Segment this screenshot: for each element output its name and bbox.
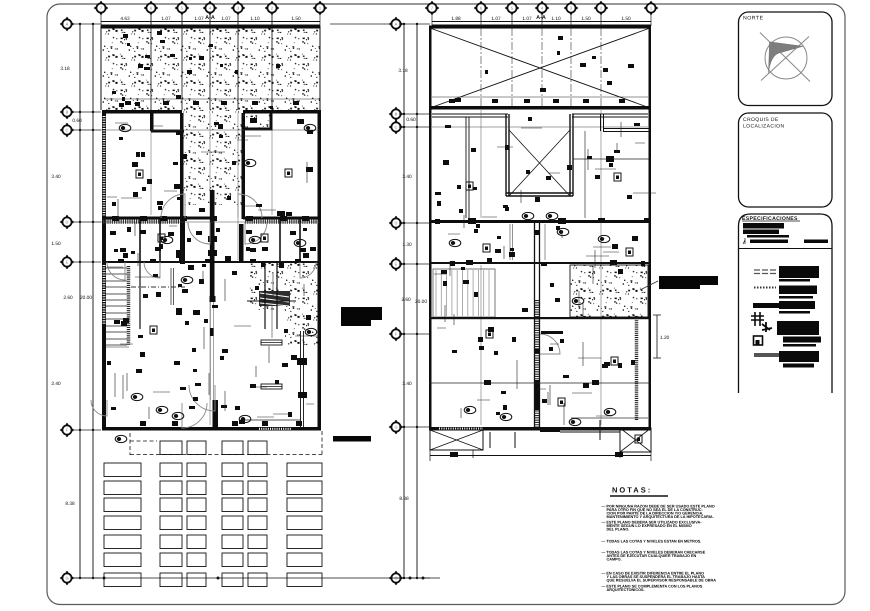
svg-text:0.60: 0.60 bbox=[406, 117, 416, 123]
right plan: planta alta / cimentacion bbox=[330, 1, 718, 585]
svg-text:2.60: 2.60 bbox=[63, 295, 73, 301]
svg-text:8.38: 8.38 bbox=[65, 501, 75, 507]
svg-text:— TODAS LAS COTAS Y NIVELES E: — TODAS LAS COTAS Y NIVELES ESTAN EN MET… bbox=[602, 540, 702, 544]
small square symbol bbox=[754, 336, 763, 345]
wall chunks on partitions bbox=[112, 216, 119, 221]
specifications content rows bbox=[754, 270, 776, 274]
svg-text:1.07: 1.07 bbox=[522, 16, 532, 22]
wall y262 bbox=[429, 262, 651, 264]
stipple lower-right patch bbox=[248, 262, 320, 310]
black label blob beside right plan bbox=[659, 276, 718, 285]
svg-text:0.60: 0.60 bbox=[72, 118, 82, 124]
svg-text:G: G bbox=[65, 576, 68, 581]
svg-text:20.00: 20.00 bbox=[415, 299, 427, 305]
right-side interior wall x301 bbox=[301, 331, 304, 428]
top-right room closet niche bbox=[243, 113, 271, 129]
svg-text:1.50: 1.50 bbox=[621, 16, 631, 22]
svg-text:1.07: 1.07 bbox=[491, 16, 501, 22]
svg-text:1.07: 1.07 bbox=[161, 16, 171, 22]
fixtures right plan bbox=[522, 212, 534, 219]
left plan left dimension lines bbox=[80, 24, 93, 578]
crosshatch blob (shower) bbox=[259, 291, 290, 306]
svg-text:1.10: 1.10 bbox=[250, 16, 260, 22]
norte box bbox=[739, 12, 833, 106]
svg-text:1.88: 1.88 bbox=[451, 16, 461, 22]
right plan crossed void (double height) bbox=[429, 26, 651, 29]
svg-text:G: G bbox=[394, 425, 397, 430]
svg-text:C: C bbox=[66, 128, 69, 133]
central spine wall bbox=[210, 190, 215, 300]
svg-text:A: A bbox=[66, 22, 69, 27]
door arc at central wall bbox=[540, 334, 560, 354]
svg-text:D: D bbox=[66, 220, 69, 225]
bottom crossed footing boxes bbox=[430, 430, 483, 450]
stipple patch right plan bbox=[570, 265, 648, 317]
partition walls upper rooms bbox=[180, 113, 184, 219]
svg-text:D: D bbox=[395, 221, 398, 226]
svg-text:B: B bbox=[395, 112, 398, 117]
svg-text:B: B bbox=[66, 110, 69, 115]
stair treads right plan bbox=[436, 270, 489, 316]
top-left niche walls bbox=[150, 113, 154, 131]
mid wall y221 bbox=[429, 220, 651, 223]
small partitions lower band bbox=[140, 219, 300, 262]
central double wall upper bbox=[535, 222, 540, 427]
right side small dimension 1.20 bbox=[656, 315, 658, 358]
stairwell cross bbox=[509, 130, 570, 196]
svg-text:DEL PLANO.: DEL PLANO. bbox=[607, 528, 630, 532]
fixtures (WC / lavatory symbols) left plan bbox=[119, 124, 131, 131]
svg-text:QUE RESUELVA EL SUPERVISOR RES: QUE RESUELVA EL SUPERVISOR RESPONSABLE D… bbox=[607, 578, 717, 582]
left plan stipple top strip (garden/patio texture) bbox=[101, 26, 320, 110]
svg-text:A: A bbox=[395, 22, 398, 27]
svg-text:1.07: 1.07 bbox=[194, 16, 204, 22]
bottom dimension line right plan bbox=[430, 455, 651, 457]
mid horizontal wall y218 (hatched) bbox=[102, 217, 212, 220]
svg-text:E: E bbox=[66, 260, 69, 265]
svg-text:NORTE: NORTE bbox=[743, 16, 764, 22]
left plan top dimension lines bbox=[101, 14, 320, 26]
svg-text:3.18: 3.18 bbox=[60, 66, 70, 72]
svg-text:4.63: 4.63 bbox=[120, 16, 130, 22]
svg-text:1.30: 1.30 bbox=[402, 242, 412, 248]
upper rooms walls (double-line foundation walls) bbox=[432, 114, 648, 117]
misc short dimension ticks left plan bbox=[106, 123, 319, 419]
left plan row grid bubbles bbox=[60, 17, 74, 31]
svg-text:1.50: 1.50 bbox=[581, 16, 591, 22]
right plan column grid bubbles bbox=[425, 1, 439, 15]
svg-text:MANTENIMIENTO Y ARQUITECTURA D: MANTENIMIENTO Y ARQUITECTURA DE LA HIPOT… bbox=[607, 515, 714, 519]
hatched interior wall right bbox=[635, 316, 639, 420]
svg-text:3.40: 3.40 bbox=[402, 381, 412, 387]
door arcs left plan bbox=[161, 194, 185, 218]
right plan row grid bubbles bbox=[389, 17, 403, 31]
svg-text:CAMPO.: CAMPO. bbox=[607, 558, 622, 562]
bottom dim ticks right plan bbox=[360, 577, 440, 579]
svg-text:C: C bbox=[395, 125, 398, 130]
wall y318 bbox=[429, 317, 651, 319]
left plan outer walls bbox=[102, 111, 106, 430]
north arrow symbol bbox=[765, 37, 807, 79]
svg-text:CROQUIS DE: CROQUIS DE bbox=[743, 117, 779, 123]
svg-text:1.50: 1.50 bbox=[51, 241, 61, 247]
right plan top dimension lines bbox=[432, 14, 651, 26]
rebar symbol bbox=[751, 312, 764, 326]
grid row faint lines bbox=[101, 129, 320, 131]
svg-text:1.20: 1.20 bbox=[660, 335, 670, 341]
scattered electrical symbols left plan bbox=[173, 162, 178, 165]
wall y262 bbox=[102, 261, 321, 263]
especificaciones box bbox=[739, 214, 833, 393]
stipple middle corridor bbox=[183, 110, 243, 205]
room label symbols (box-in-box) right plan bbox=[466, 182, 473, 190]
svg-text:3.40: 3.40 bbox=[51, 174, 61, 180]
svg-text:ARQUITECTONICOS.: ARQUITECTONICOS. bbox=[607, 588, 645, 592]
address text blobs bbox=[743, 223, 784, 229]
svg-text:3.18: 3.18 bbox=[398, 68, 408, 74]
svg-text:2.40: 2.40 bbox=[51, 381, 61, 387]
dashed patio boundary bbox=[130, 431, 322, 455]
svg-text:20.00: 20.00 bbox=[80, 295, 92, 301]
svg-text:3.40: 3.40 bbox=[402, 174, 412, 180]
svg-text:LOCALIZACION: LOCALIZACION bbox=[743, 124, 784, 130]
svg-text:1.10: 1.10 bbox=[551, 16, 561, 22]
interior double wall right rooms bbox=[601, 114, 651, 132]
croquis de localizacion box bbox=[739, 113, 833, 207]
bottom dimension line left bbox=[73, 577, 360, 579]
svg-text:E: E bbox=[395, 262, 398, 267]
black label blob beside left plan bbox=[341, 307, 382, 320]
svg-text:A-A: A-A bbox=[536, 15, 546, 21]
right plan outer walls bbox=[429, 26, 432, 430]
left plan column grid bubbles bbox=[94, 1, 108, 15]
left plan outline thin top bbox=[101, 26, 320, 110]
svg-text:1.50: 1.50 bbox=[291, 16, 301, 22]
stairs left plan (two flights) bbox=[105, 268, 127, 345]
sliding window symbols bbox=[261, 340, 282, 345]
svg-text:1.07: 1.07 bbox=[221, 16, 231, 22]
lower partitions bbox=[429, 382, 651, 384]
right plan left dimension lines bbox=[404, 24, 417, 578]
left plan interior column grid lines bbox=[150, 14, 152, 110]
top interior wall bbox=[102, 110, 182, 114]
svg-text:8.38: 8.38 bbox=[399, 496, 409, 502]
svg-text:NOTAS:: NOTAS: bbox=[612, 486, 652, 495]
room label symbols (box-in-box) left plan bbox=[136, 170, 143, 178]
left plan: planta baja bbox=[51, 1, 382, 587]
svg-text:2.60: 2.60 bbox=[401, 297, 411, 303]
parking pavers grid bbox=[160, 441, 182, 455]
hatched stair wall bbox=[127, 266, 131, 345]
scattered electrical symbols right plan bbox=[488, 327, 494, 332]
